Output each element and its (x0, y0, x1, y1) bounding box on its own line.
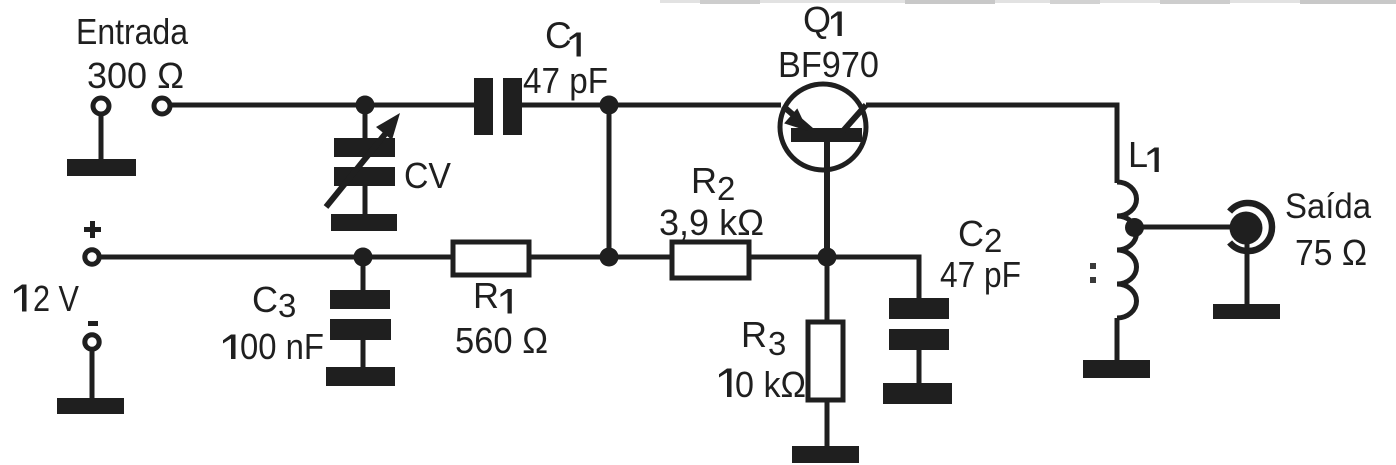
svg-text:BF970: BF970 (778, 44, 879, 85)
ground CV (331, 214, 397, 231)
svg-text:47 pF: 47 pF (940, 254, 1021, 295)
scan artifact colon (1090, 263, 1096, 283)
wire output to ground (1245, 244, 1250, 305)
node junction R1-R2 (600, 248, 619, 267)
node junction L1 tap (1125, 218, 1144, 237)
label C2 value 47 pF (940, 254, 1021, 295)
svg-text:CV: CV (404, 155, 451, 196)
scan artifact top edge (660, 0, 1396, 4)
wire junction to C3 (361, 257, 366, 291)
label R1 value 560 ohm (455, 320, 548, 361)
capacitor C3 (330, 290, 391, 340)
svg-text:R: R (473, 275, 499, 316)
label L1 (1128, 134, 1159, 175)
resistor R3 (808, 322, 843, 400)
svg-text:47 pF: 47 pF (523, 60, 608, 101)
svg-text:560 Ω: 560 Ω (455, 320, 548, 361)
capacitor C2 (889, 298, 949, 350)
ground C3 (326, 367, 395, 386)
wire C2 to ground (917, 350, 922, 384)
ground L1 (1083, 360, 1150, 378)
label plus (84, 221, 101, 238)
svg-text:L: L (1128, 134, 1148, 175)
svg-text:3: 3 (768, 325, 786, 362)
wire transistor to L1 corner (866, 105, 1117, 183)
svg-text:300 Ω: 300 Ω (87, 55, 184, 96)
capacitor C1 (474, 78, 522, 135)
inductor L1 (1117, 182, 1137, 318)
node junction base-R3-C2 (818, 248, 837, 267)
wire R2 to C2 corner (749, 257, 919, 299)
label R1 (473, 275, 512, 316)
wire L1 tap to output (1134, 225, 1231, 230)
wire node to R3 (825, 257, 830, 322)
label Q1 (803, 0, 842, 40)
connector output Saida (1230, 203, 1273, 251)
svg-text:R: R (691, 160, 717, 201)
svg-text:3,9 kΩ: 3,9 kΩ (659, 202, 764, 243)
label 12 V (14, 278, 79, 319)
terminal supply plus (85, 250, 99, 264)
svg-text:Q: Q (803, 0, 831, 40)
label R2 value 3,9 kohm (659, 202, 764, 243)
wire bottom rail plus to R1 (101, 255, 453, 260)
ground R3 (792, 446, 859, 463)
svg-text:2 V: 2 V (33, 278, 79, 319)
wire R1 to R2 (529, 255, 672, 260)
wire base down (824, 142, 830, 257)
arrow CV variable (326, 113, 400, 207)
ground C2 (883, 383, 952, 404)
svg-text:Saída: Saída (1285, 187, 1371, 226)
label Saida (1285, 187, 1371, 226)
resistor R2 (672, 242, 749, 278)
wire C3 to ground (361, 340, 366, 368)
ground supply minus (57, 398, 124, 414)
svg-text:C: C (252, 279, 278, 320)
resistor R1 (453, 242, 529, 275)
label CV (404, 155, 451, 196)
label 75 ohm (1295, 232, 1367, 273)
svg-text:00 nF: 00 nF (240, 326, 324, 367)
label Entrada (76, 11, 189, 52)
label C1 (545, 15, 581, 57)
node junction CV (356, 96, 375, 115)
label C3 (252, 279, 296, 324)
wire minus to ground (90, 351, 95, 399)
label R3 value 10 kohm (719, 364, 806, 405)
wire C1 to transistor (522, 103, 781, 108)
svg-text:0 kΩ: 0 kΩ (735, 364, 806, 405)
terminal input hot (154, 98, 170, 114)
label R3 (741, 314, 786, 362)
svg-text:C: C (545, 15, 572, 56)
label C3 value 100 nF (223, 326, 324, 367)
wire top rail terminal to C1 (172, 103, 475, 108)
node junction C3 (354, 248, 373, 267)
transistor Q1 (780, 84, 866, 170)
wire junction down to R1-R2 node (607, 105, 612, 257)
svg-text:R: R (741, 314, 767, 355)
node junction C1 output (600, 96, 619, 115)
capacitor CV variable (334, 138, 395, 186)
label C2 (958, 213, 1002, 259)
label BF970 (778, 44, 879, 85)
terminal supply minus (85, 335, 99, 349)
label 300 ohm (87, 55, 184, 96)
wire terminal to ground (99, 116, 104, 161)
svg-text:3: 3 (278, 287, 296, 324)
wire junction to CV (363, 105, 368, 140)
svg-text:C: C (958, 213, 984, 254)
wire R3 to ground (825, 400, 830, 447)
ground output (1213, 304, 1280, 319)
svg-text:Entrada: Entrada (76, 11, 189, 52)
label C1 value 47 pF (523, 60, 608, 101)
wire CV to ground (363, 186, 368, 216)
label minus (88, 321, 98, 326)
ground input (67, 159, 136, 176)
terminal input ground-side (93, 98, 109, 114)
label R2 (691, 160, 735, 207)
svg-text:75 Ω: 75 Ω (1295, 232, 1367, 273)
wire L1 to ground (1115, 318, 1120, 361)
